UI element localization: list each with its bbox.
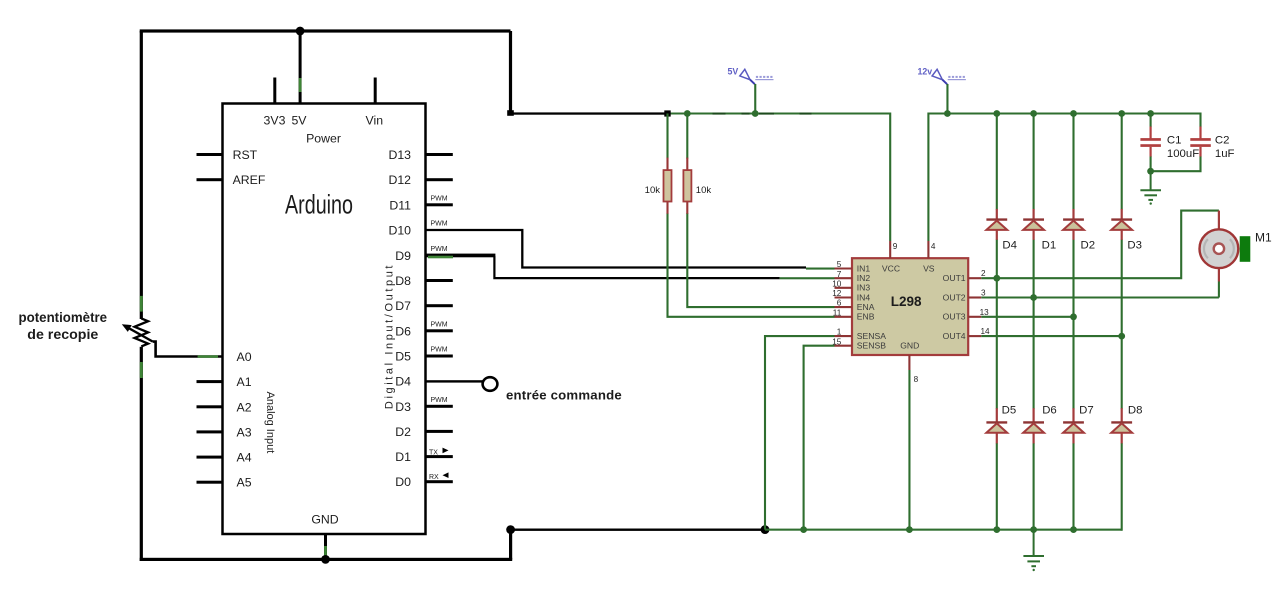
- svg-text:RX: RX: [429, 474, 439, 481]
- potentiometer arrowhead: [122, 324, 132, 332]
- pin VCC(9) stub: [889, 241, 891, 258]
- svg-text:entrée commande: entrée commande: [506, 387, 622, 402]
- svg-text:8: 8: [914, 375, 919, 384]
- svg-text:D3: D3: [395, 400, 411, 414]
- node dot OUT3/D2: [1070, 313, 1077, 320]
- svg-text:15: 15: [832, 337, 842, 346]
- svg-text:Digital Input/Output: Digital Input/Output: [383, 263, 395, 409]
- pin ENB stub: [835, 316, 853, 318]
- pin D2 stub: [426, 430, 453, 433]
- pin OUT1 stub: [968, 277, 981, 279]
- svg-text:D7: D7: [395, 299, 411, 313]
- svg-text:IN1: IN1: [857, 263, 871, 273]
- wire OUT2 to motor bottom: [981, 296, 1219, 298]
- node dot D4 column on 12V rail: [993, 110, 1000, 117]
- wire green mark on 5V pin wire: [299, 78, 302, 92]
- motor green terminal plate: [1240, 236, 1251, 262]
- motor center hub: [1214, 244, 1224, 254]
- node dot D5 column on ground rail: [993, 526, 1000, 533]
- pin D13 stub: [426, 153, 453, 156]
- pin D7 stub: [426, 304, 453, 307]
- motor M1 body: [1200, 229, 1239, 268]
- node dot SENSB on ground rail: [800, 526, 807, 533]
- wire ground rail black part: [511, 529, 765, 531]
- ground symbol under C1: [1140, 171, 1161, 200]
- pin D3 stub: [426, 405, 453, 408]
- pin OUT4 stub: [968, 335, 981, 337]
- svg-text:D5: D5: [1002, 404, 1017, 416]
- wire IN1 green tail: [806, 268, 835, 270]
- wire diode column D2/D7: [1072, 114, 1074, 530]
- wire D9 to IN2 (black part): [494, 256, 779, 278]
- svg-text:VS: VS: [923, 263, 935, 273]
- pin D6 stub: [426, 329, 453, 332]
- pin D12 stub: [426, 178, 453, 181]
- svg-text:D13: D13: [388, 148, 411, 162]
- node dot 5V terminal on rail: [752, 110, 759, 117]
- svg-text:D8: D8: [395, 274, 411, 288]
- node junction dot top rail at 5V: [296, 27, 305, 36]
- pin OUT2 stub: [968, 296, 981, 298]
- node dot D6 column on ground rail: [1030, 526, 1037, 533]
- svg-text:OUT3: OUT3: [943, 312, 966, 322]
- wire OUT4: [981, 335, 1121, 337]
- node dot D1 column on 12V rail: [1030, 110, 1037, 117]
- svg-text:Arduino: Arduino: [285, 189, 353, 219]
- power terminal 5V: [728, 67, 774, 85]
- pin IN4 stub: [835, 296, 853, 298]
- svg-text:A0: A0: [237, 350, 252, 364]
- pin D1 stub: [426, 455, 453, 458]
- pin D11 stub: [426, 203, 453, 206]
- diode D8: [1111, 408, 1132, 443]
- svg-text:14: 14: [981, 327, 991, 336]
- svg-text:SENSB: SENSB: [857, 341, 886, 351]
- svg-text:D5: D5: [395, 350, 411, 364]
- svg-text:A4: A4: [237, 451, 252, 465]
- wire motor bottom lead green: [1218, 282, 1220, 298]
- svg-text:PWM: PWM: [431, 221, 448, 228]
- diode D5: [986, 408, 1007, 443]
- pin A5 stub: [197, 481, 223, 484]
- svg-text:D3: D3: [1127, 240, 1142, 252]
- svg-text:D0: D0: [395, 475, 411, 489]
- wire green mark GND stub: [324, 546, 327, 557]
- node dot D3 column on 12V rail: [1118, 110, 1125, 117]
- power terminal 12V: [918, 67, 966, 85]
- svg-text:10k: 10k: [696, 185, 712, 196]
- wire motor bottom lead red: [1218, 268, 1220, 282]
- capacitor C2: [1190, 127, 1211, 157]
- op-amp U2 L298 body: [852, 258, 968, 355]
- potentiometer wiper arrow line: [128, 327, 153, 341]
- svg-text:GND: GND: [311, 513, 338, 527]
- svg-text:7: 7: [837, 270, 842, 279]
- svg-text:AREF: AREF: [233, 173, 266, 187]
- wire D4 to entry terminal: [426, 380, 484, 382]
- node dot OUT2/D1: [1030, 294, 1037, 301]
- wire riser bottom to ground rail: [509, 530, 512, 560]
- svg-text:TX: TX: [429, 449, 438, 456]
- pin IN2 stub: [835, 277, 853, 279]
- ground dot under C1: [1150, 202, 1152, 204]
- svg-text:D6: D6: [1042, 404, 1057, 416]
- svg-text:11: 11: [833, 308, 842, 317]
- svg-text:D2: D2: [395, 425, 411, 439]
- pin VS(4) stub: [927, 241, 929, 258]
- svg-text:Power: Power: [306, 132, 341, 146]
- pin A4 stub: [197, 456, 223, 459]
- wire OUT3: [981, 316, 1073, 318]
- pin RST stub: [197, 153, 223, 156]
- wire C1 column: [1150, 114, 1152, 172]
- svg-text:OUT2: OUT2: [943, 292, 966, 302]
- node dot C1/C2 junction: [1147, 168, 1154, 175]
- svg-text:VCC: VCC: [882, 263, 900, 273]
- svg-text:IN2: IN2: [857, 273, 871, 283]
- svg-text:de recopie: de recopie: [27, 327, 99, 342]
- ground symbol on ground rail: [1023, 530, 1044, 567]
- svg-text:D1: D1: [1042, 240, 1057, 252]
- svg-text:3V3: 3V3: [264, 114, 286, 128]
- node dot D2 column on 12V rail: [1070, 110, 1077, 117]
- svg-text:5V: 5V: [728, 67, 739, 77]
- wire green mark on A0 wire: [198, 355, 218, 358]
- pin IN1 stub: [835, 267, 853, 269]
- diode D2: [1063, 209, 1084, 240]
- node dot D7 column on ground rail: [1070, 526, 1077, 533]
- svg-text:13: 13: [980, 308, 990, 317]
- diode D1: [1023, 209, 1044, 240]
- wire SENSB to ground rail: [804, 346, 835, 530]
- svg-text:ENA: ENA: [857, 302, 875, 312]
- svg-text:5V: 5V: [291, 114, 307, 128]
- svg-text:9: 9: [893, 242, 898, 251]
- svg-text:IN4: IN4: [857, 292, 871, 302]
- svg-text:GND: GND: [900, 341, 919, 351]
- wire 12V rail green: [928, 114, 1200, 242]
- pin A2 stub: [197, 405, 223, 408]
- wire 5V rail green: [668, 114, 891, 242]
- svg-text:M1: M1: [1255, 230, 1272, 244]
- node black square dot end of arduino 5V wire: [664, 110, 670, 116]
- wire top-right corner drop: [509, 31, 512, 114]
- node junction dot GND-bottom wire: [321, 555, 330, 564]
- node junction dot (765,529.6): [761, 525, 770, 534]
- diode D4: [986, 209, 1007, 240]
- wire resistor R2 line (to ENA): [687, 114, 834, 308]
- node dot 12V terminal on rail: [944, 110, 951, 117]
- wire top rail: [140, 29, 511, 32]
- wire wiper to A0: [153, 342, 223, 357]
- wire D10 to IN1 (black part): [426, 230, 807, 268]
- node dot OUT1/D4: [993, 275, 1000, 282]
- wire ground rail green part: [765, 529, 1122, 531]
- svg-text:OUT1: OUT1: [943, 273, 966, 283]
- svg-text:C1: C1: [1167, 134, 1182, 146]
- pin AREF stub: [197, 178, 223, 181]
- wire C2 column: [1151, 156, 1201, 171]
- diode D6: [1023, 408, 1044, 443]
- capacitor C1: [1140, 127, 1161, 157]
- svg-text:5: 5: [837, 260, 842, 269]
- wire 5V-pin to top rail: [299, 31, 302, 104]
- motor inner arcs: [1204, 239, 1234, 258]
- wire bottom horizontal from left corner: [140, 558, 513, 561]
- wire IN2 green tail: [780, 277, 835, 279]
- node corner square at (510,113): [507, 110, 514, 116]
- Arduino body U1: [223, 104, 426, 535]
- svg-text:PWM: PWM: [431, 321, 448, 328]
- wire resistor R1 line (to ENB): [668, 114, 835, 317]
- wire 5V terminal drop: [754, 84, 756, 114]
- wire OUT1 to motor top: [981, 211, 1219, 279]
- ground dot on ground rail symbol: [1033, 569, 1035, 571]
- svg-text:D10: D10: [388, 224, 411, 238]
- svg-text:IN3: IN3: [857, 283, 871, 293]
- svg-text:RST: RST: [233, 148, 258, 162]
- resistor R1 red leads: [666, 158, 668, 214]
- svg-text:potentiomètre: potentiomètre: [19, 310, 108, 325]
- node dot R2 on rail: [684, 110, 691, 117]
- pin SENSB stub: [835, 345, 853, 347]
- svg-text:D8: D8: [1128, 404, 1143, 416]
- svg-text:12v: 12v: [918, 67, 933, 77]
- wire green mark left wire upper: [140, 296, 143, 312]
- pin GND(8) stub: [908, 355, 910, 370]
- svg-text:PWM: PWM: [431, 195, 448, 202]
- wire rail segment to resistors (black): [511, 112, 668, 114]
- svg-text:12: 12: [832, 289, 842, 298]
- svg-text:C2: C2: [1215, 134, 1230, 146]
- pin A3 stub: [197, 430, 223, 433]
- svg-text:D7: D7: [1079, 404, 1094, 416]
- pin 3V3 stub: [273, 78, 276, 104]
- svg-text:10k: 10k: [645, 185, 661, 196]
- svg-text:D11: D11: [389, 198, 411, 212]
- svg-text:SENSA: SENSA: [857, 331, 886, 341]
- node junction dot (510.6,529.6): [506, 525, 515, 534]
- wire diode column D1/D6: [1033, 114, 1035, 530]
- svg-text:100uF: 100uF: [1167, 148, 1199, 160]
- svg-text:Vin: Vin: [366, 114, 384, 128]
- svg-text:Analog Input: Analog Input: [264, 392, 276, 454]
- diode D3: [1111, 209, 1132, 240]
- wire D9 thick segment: [426, 254, 496, 258]
- pin D5 stub: [426, 355, 453, 358]
- potentiometer RV zigzag: [135, 318, 149, 346]
- svg-text:D4: D4: [1002, 240, 1017, 252]
- pin GND stub: [324, 534, 327, 559]
- svg-text:A5: A5: [237, 476, 252, 490]
- pin D0 stub: [426, 480, 453, 483]
- svg-text:PWM: PWM: [431, 347, 448, 354]
- node dot GND8 on ground rail: [906, 526, 913, 533]
- node dot OUT4/D3: [1118, 333, 1125, 340]
- pin ENA stub: [835, 306, 853, 308]
- svg-text:3: 3: [981, 289, 986, 298]
- svg-text:A3: A3: [237, 425, 252, 439]
- pin A1 stub: [197, 380, 223, 383]
- svg-text:1uF: 1uF: [1215, 148, 1235, 160]
- wire diode column D4/D5: [996, 114, 998, 530]
- svg-text:D4: D4: [395, 375, 411, 389]
- wire green mark left wire lower: [140, 362, 143, 378]
- svg-text:PWM: PWM: [431, 246, 448, 253]
- svg-text:OUT4: OUT4: [943, 331, 966, 341]
- svg-text:L298: L298: [891, 294, 922, 309]
- svg-text:1: 1: [837, 328, 842, 337]
- svg-text:D2: D2: [1081, 240, 1096, 252]
- wire motor top lead: [1218, 211, 1220, 230]
- wire SENSA to ground rail: [765, 336, 835, 529]
- wire left vertical lower: [140, 347, 143, 561]
- svg-text:ENB: ENB: [857, 312, 875, 322]
- wire left vertical upper: [140, 31, 143, 319]
- pin OUT3 stub: [968, 316, 981, 318]
- svg-text:D1: D1: [395, 450, 411, 464]
- resistor R1 10k body: [664, 170, 672, 201]
- svg-text:6: 6: [837, 299, 842, 308]
- resistor R2 red leads: [686, 158, 688, 214]
- svg-text:D9: D9: [395, 249, 411, 263]
- svg-text:D12: D12: [388, 173, 411, 187]
- diode D7: [1063, 408, 1084, 443]
- wire green mark on D9 wire: [428, 256, 453, 259]
- svg-text:PWM: PWM: [431, 397, 448, 404]
- wire GND pin8 to ground rail: [908, 370, 910, 530]
- wire shadow dashes on 5V rail: [713, 113, 812, 115]
- wire 12V terminal drop: [946, 84, 948, 114]
- terminal entree commande circle: [483, 377, 498, 391]
- svg-text:2: 2: [981, 269, 986, 278]
- pin Vin stub: [374, 78, 377, 104]
- svg-text:10: 10: [832, 279, 842, 288]
- resistor R2 10k body: [683, 170, 691, 201]
- node dot C1 on rail: [1147, 110, 1154, 117]
- pin IN3 stub: [835, 287, 853, 289]
- svg-text:D6: D6: [395, 324, 411, 338]
- pin D8 stub: [426, 279, 453, 282]
- svg-text:A2: A2: [237, 400, 252, 414]
- svg-text:A1: A1: [237, 375, 252, 389]
- wire diode column D3/D8: [1121, 114, 1123, 531]
- pin SENSA stub: [835, 335, 853, 337]
- svg-text:4: 4: [931, 242, 936, 251]
